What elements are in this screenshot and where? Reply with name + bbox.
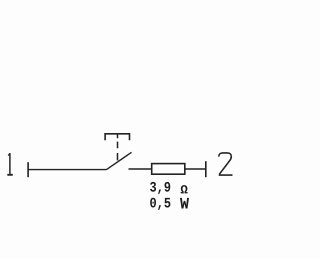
switch S1 actuator dashed link <box>117 134 119 161</box>
resistor R1 power label 0,5 <box>150 198 170 210</box>
switch S1 pushbutton cap <box>105 134 129 140</box>
terminal tick left <box>27 162 29 177</box>
node 1 label <box>7 153 13 175</box>
switch S1 lever <box>107 152 132 169</box>
terminal tick right <box>205 161 207 177</box>
resistor R1 unit ohm <box>181 185 188 193</box>
wire <box>129 168 152 170</box>
resistor R1 unit W <box>180 198 189 209</box>
wire <box>28 169 106 171</box>
resistor R1 body <box>152 164 185 175</box>
node 2 label <box>219 153 233 175</box>
resistor R1 value label 3,9 <box>150 182 170 194</box>
wire <box>185 168 206 170</box>
